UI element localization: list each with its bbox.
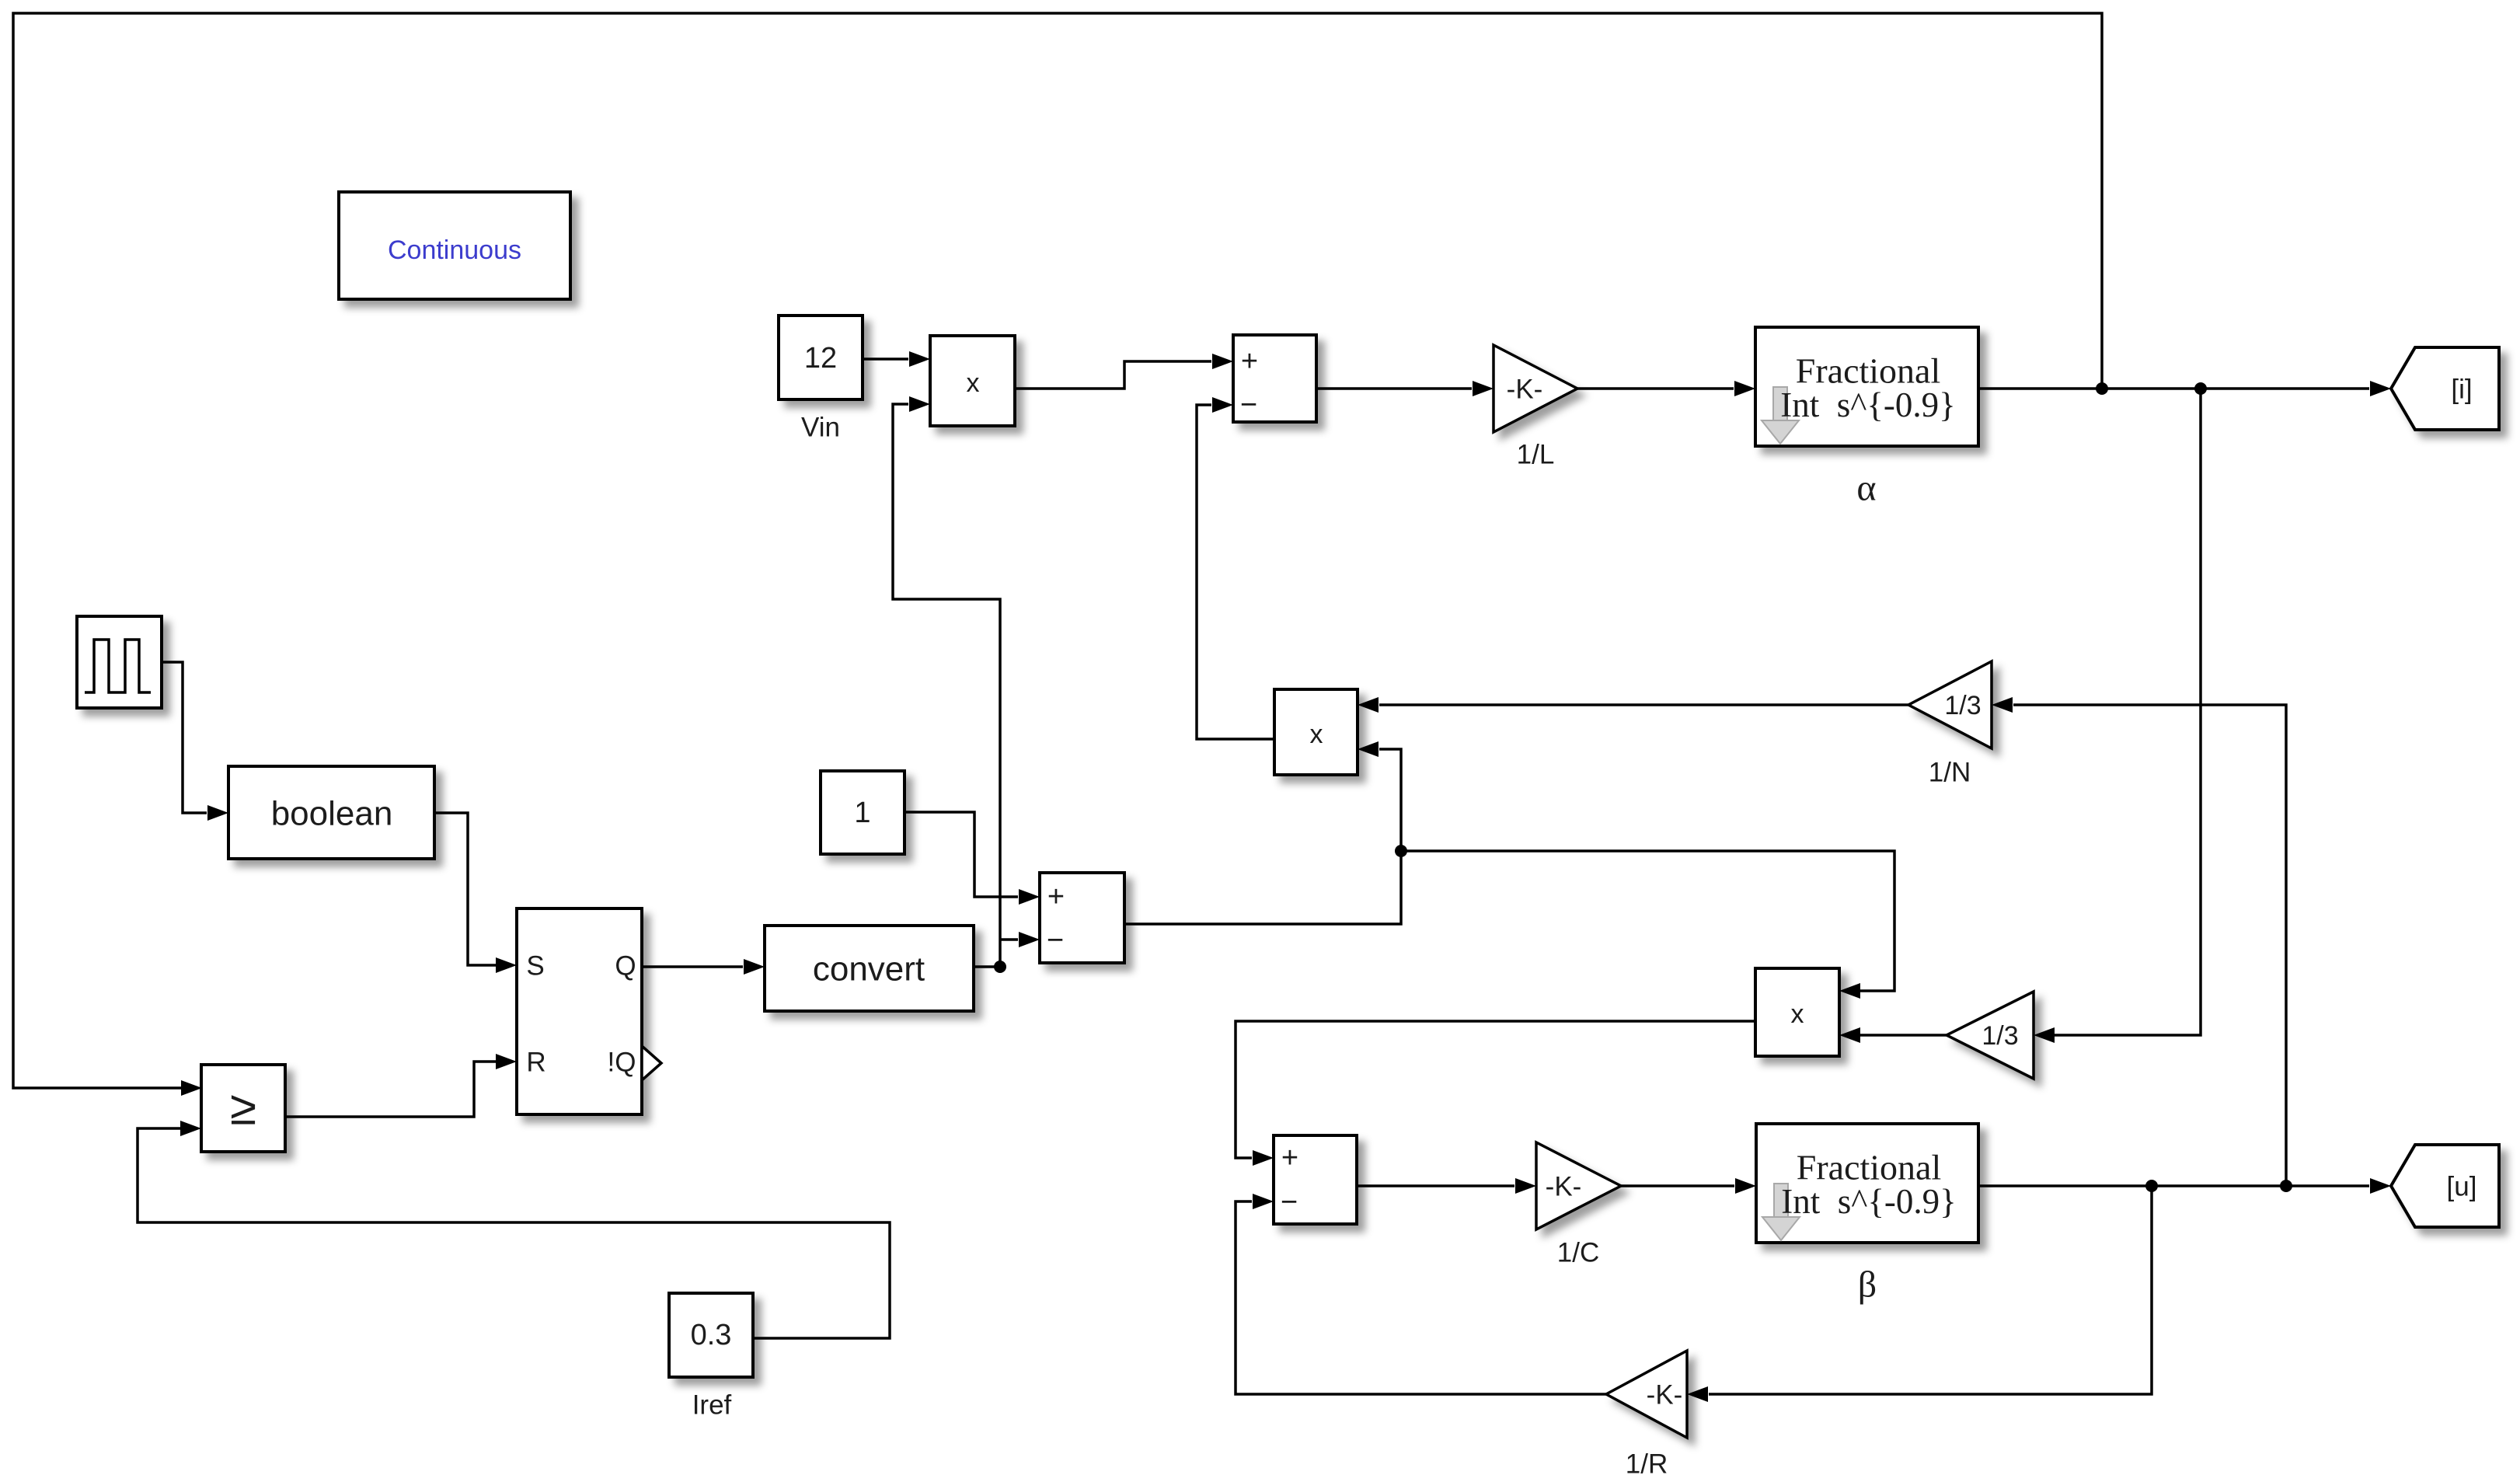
block: Continuous powergui [339,192,570,299]
block: gain 1/N (mirrored) [1908,661,1992,788]
block: relational operator >= [201,1065,285,1152]
svg-text:1/C: 1/C [1557,1238,1599,1268]
svg-text:[u]: [u] [2447,1172,2477,1202]
block: gain 1/3 (mirrored) [1947,992,2034,1079]
wire: Q output of flip-flop to convert block [642,959,765,975]
junction: node at convert output [994,961,1006,973]
wire: product x1 output to sum1 + input [1015,354,1233,389]
svg-text:+: + [1241,345,1258,378]
wire: constant Vin 12 to product x1 input 1 [863,351,930,367]
block: constant 1 [821,771,904,854]
junction: u-row node to 1/R loop [2145,1180,2158,1192]
block: constant Iref = 0.3 [669,1293,753,1421]
svg-text:[i]: [i] [2451,375,2472,405]
svg-text:1/L: 1/L [1517,440,1555,470]
wire: u-row down to gain 1/R input [1687,1186,2152,1402]
block: goto tag [i] [2391,347,2499,430]
block: convert data type [765,926,974,1011]
wire: fractional alpha output to goto tag [i] [1978,381,2391,396]
svg-text:Int s^{-0.9}: Int s^{-0.9} [1781,1182,1957,1221]
svg-text:+: + [1281,1142,1298,1174]
svg-text:Iref: Iref [692,1390,732,1421]
block: sum3 (+ -) [1274,1135,1357,1224]
wire: convert output to junction [974,965,1000,968]
svg-text:1/3: 1/3 [1944,691,1981,720]
svg-text:+: + [1047,880,1065,913]
block: pulse generator [77,616,162,708]
block: goto tag [u] [2391,1145,2499,1227]
svg-text:0.3: 0.3 [691,1319,732,1351]
wire: gain 1/L output to fractional integrator alpha [1577,381,1755,396]
block: fractional integrator beta [1756,1124,1978,1306]
svg-text:1: 1 [854,797,870,829]
wire: lower 1/3 gain output to product xM input 2 [1839,1027,1947,1043]
wire: sum2 net branch to product xM input 1 [1401,851,1894,999]
junction: u-row node to 1/N branch [2280,1180,2292,1192]
svg-text:−: − [1047,924,1064,957]
junction: node on sum2 net branching to xM [1395,845,1407,857]
svg-text:x: x [1791,999,1804,1029]
svg-text:R: R [526,1048,545,1078]
wire: sum3 output to gain 1/C [1357,1178,1536,1194]
wire: Iref constant around to relational operator input 2 [138,1121,890,1338]
wire: sum2 output up to product xN input 2 [1124,741,1401,924]
block: product xN (mirrored) [1274,689,1358,775]
junction: i-row node to top loop [2096,382,2108,395]
svg-text:Q: Q [615,951,636,982]
wire: boolean output to S input of flip-flop [436,813,517,973]
block: gain 1/C [1536,1142,1621,1268]
svg-text:≥: ≥ [230,1082,256,1135]
svg-text:12: 12 [804,342,837,375]
svg-text:x: x [1310,720,1323,749]
junction: i-row node to 1/3 branch [2194,382,2207,395]
svg-text:1/3: 1/3 [1981,1021,2018,1051]
block: gain 1/L [1494,345,1577,470]
svg-text:-K-: -K- [1507,375,1543,405]
svg-text:S: S [526,951,544,982]
wire: gain 1/C output to fractional integrator beta [1621,1178,1756,1194]
wire: convert net up to product x1 input 2 [893,396,1000,967]
svg-text:Vin: Vin [801,413,840,443]
block: fractional integrator alpha [1755,327,1978,509]
svg-text:Fractional: Fractional [1796,351,1941,391]
wire: gain 1/N output to product xN input 1 [1358,697,1908,713]
block: S-R flip-flop [517,908,661,1114]
wire: u-row net up to gain 1/N input [1992,697,2286,1186]
wire: sum1 output to gain 1/L [1316,381,1494,396]
wire: feedback from node on i-row around top-left border to relational operator input 1 [13,13,2102,1096]
svg-text:-K-: -K- [1546,1172,1582,1202]
svg-text:−: − [1281,1186,1298,1219]
block: gain 1/R (mirrored) [1606,1351,1687,1480]
block: sum1 (+ -) [1233,335,1316,422]
block: sum2 (+ -) [1040,873,1124,963]
svg-text:Continuous: Continuous [388,235,521,265]
svg-text:−: − [1240,389,1257,421]
wire: gain 1/R output to sum3 - input [1236,1194,1606,1394]
svg-text:β: β [1858,1264,1877,1306]
svg-text:α: α [1856,468,1876,509]
wire: fractional beta output to goto tag [u] [1978,1178,2391,1194]
svg-text:1/N: 1/N [1929,758,1971,788]
wire: convert net branch to sum2 - input [1000,932,1040,947]
wire: product xN output to sum1 - input [1197,397,1274,739]
svg-text:!Q: !Q [608,1048,636,1078]
wire: constant 1 to sum2 + input [904,812,1040,905]
svg-text:Int s^{-0.9}: Int s^{-0.9} [1780,385,1956,424]
svg-text:1/R: 1/R [1626,1449,1668,1480]
wire: relational operator output to R input of flip-flop [285,1054,517,1117]
wire: product xM output to sum3 + input [1236,1021,1755,1166]
block: product xM (mirrored) [1755,968,1839,1056]
block: constant Vin = 12 [779,316,863,443]
block: product x1 [930,336,1015,426]
svg-text:boolean: boolean [271,795,393,833]
block: boolean data type conversion [228,766,434,859]
svg-text:x: x [967,368,980,398]
wire: pulse generator to boolean block [162,662,228,821]
svg-text:-K-: -K- [1647,1380,1683,1411]
svg-text:Fractional: Fractional [1797,1148,1942,1187]
wire: i-row branch down to lower 1/3 gain input [2034,389,2201,1043]
svg-text:convert: convert [813,950,925,989]
